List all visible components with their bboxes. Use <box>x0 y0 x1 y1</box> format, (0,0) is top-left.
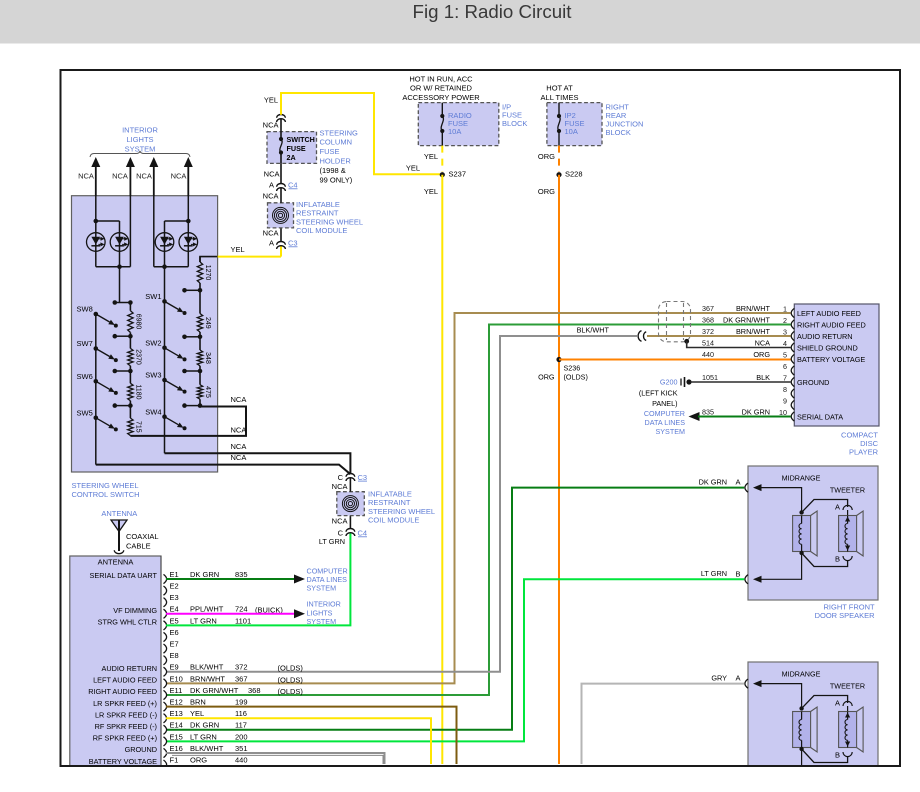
svg-text:COLUMN: COLUMN <box>320 138 353 147</box>
wire lower speaker tweeter top link <box>802 696 848 709</box>
page header bar <box>0 0 920 44</box>
svg-text:LT GRN: LT GRN <box>319 537 345 546</box>
switch SW1 <box>145 292 186 315</box>
svg-text:A: A <box>269 180 274 189</box>
shield twist symbol on 372 wire <box>638 331 641 342</box>
svg-text:NCA: NCA <box>332 517 348 526</box>
svg-text:E2: E2 <box>170 582 179 591</box>
connector arc tweeter B lower speaker <box>835 751 852 760</box>
wire BLK/WHT 351 E16 down <box>166 753 385 764</box>
label 440 ORG pin5 <box>702 350 770 359</box>
wire LED group left bottom rail <box>96 196 131 303</box>
svg-text:10A: 10A <box>448 127 461 136</box>
switch SW2 <box>145 339 186 362</box>
pin chevron B right front door speaker <box>735 570 748 584</box>
fuse IP2 FUSE 10A <box>557 103 561 146</box>
label STEERING WHEEL CONTROL SWITCH <box>72 481 140 499</box>
wire NCA arrow 2 to interior lights <box>126 157 135 196</box>
svg-text:NCA: NCA <box>263 121 279 130</box>
wire lower speaker midrange bottom to pin B <box>753 747 804 779</box>
svg-text:E10: E10 <box>170 674 183 683</box>
svg-text:NCA: NCA <box>263 192 279 201</box>
switch SW7 <box>77 339 118 362</box>
svg-text:YEL: YEL <box>190 709 204 718</box>
svg-text:475: 475 <box>204 386 211 398</box>
svg-text:SW6: SW6 <box>77 372 93 381</box>
svg-text:1101: 1101 <box>235 616 251 625</box>
svg-text:LEFT AUDIO FEED: LEFT AUDIO FEED <box>93 676 157 685</box>
wire BLK/WHT 372 E9 to shield splice <box>166 336 637 672</box>
svg-text:BLK/WHT: BLK/WHT <box>190 744 224 753</box>
wire GRY lower speaker A down <box>582 684 745 764</box>
svg-text:E12: E12 <box>170 698 183 707</box>
svg-text:LT GRN: LT GRN <box>190 616 217 625</box>
right rear junction block box <box>547 103 602 146</box>
svg-text:1180: 1180 <box>134 384 141 399</box>
svg-text:A: A <box>735 673 740 682</box>
svg-text:LEFT AUDIO FEED: LEFT AUDIO FEED <box>797 309 861 318</box>
wire right front door speaker tweeter bottom link <box>802 553 848 567</box>
midrange speaker lower speaker <box>793 712 811 748</box>
svg-text:E5: E5 <box>170 616 179 625</box>
label RIGHT REAR JUNCTION BLOCK <box>606 103 644 137</box>
label RADIO FUSE 10A <box>448 111 472 136</box>
svg-text:LR SPKR FEED (-): LR SPKR FEED (-) <box>95 710 157 719</box>
wire BRN/WHT 367 E10 to CD player pin 1 <box>166 313 791 683</box>
svg-text:LR SPKR FEED (+): LR SPKR FEED (+) <box>93 699 157 708</box>
antenna symbol <box>111 520 127 554</box>
connector arc tweeter B right front door speaker <box>835 555 852 564</box>
wire lower coil module lower lead <box>349 516 351 529</box>
svg-text:C3: C3 <box>288 238 298 247</box>
svg-text:835: 835 <box>702 407 714 416</box>
connector pin id and wire labels <box>170 570 304 765</box>
connector C3 lower <box>338 473 368 482</box>
svg-text:SHIELD GROUND: SHIELD GROUND <box>797 344 858 353</box>
label HOT AT ALL TIMES <box>541 84 579 102</box>
svg-text:FUSE: FUSE <box>287 144 306 153</box>
svg-text:372: 372 <box>235 663 248 672</box>
inflatable restraint steering wheel coil module (lower) <box>337 492 365 516</box>
svg-text:ORG: ORG <box>538 187 555 196</box>
connector top of steering column chain <box>277 115 286 118</box>
svg-text:835: 835 <box>235 570 248 579</box>
svg-text:SWITCH: SWITCH <box>287 135 315 144</box>
wire BRN 199 E12 down <box>166 707 457 764</box>
label LEFT KICK PANEL <box>639 388 678 408</box>
svg-text:SW2: SW2 <box>145 339 161 348</box>
svg-text:249: 249 <box>204 317 211 329</box>
wire switch bus SW5-SW8 <box>95 314 97 465</box>
svg-text:7: 7 <box>783 373 787 382</box>
svg-text:CONTROL SWITCH: CONTROL SWITCH <box>72 490 140 499</box>
switch SW8 <box>77 305 118 328</box>
label IP2 FUSE 10A <box>565 111 585 136</box>
svg-text:E8: E8 <box>170 651 179 660</box>
right front door speaker block <box>748 466 878 600</box>
svg-text:368: 368 <box>702 315 714 324</box>
label I/P FUSE BLOCK <box>502 103 527 128</box>
svg-text:372: 372 <box>702 327 714 336</box>
svg-text:E15: E15 <box>170 732 183 741</box>
wire NCA top connector <box>280 119 282 132</box>
brace over NCA arrows <box>90 151 190 157</box>
label SWITCH FUSE 2A <box>287 135 315 162</box>
svg-text:(OLDS): (OLDS) <box>278 675 304 684</box>
right chain tap stubs <box>182 288 202 408</box>
svg-text:NCA: NCA <box>231 442 247 451</box>
svg-text:NCA: NCA <box>171 172 187 181</box>
wire LED group right top junction <box>165 196 191 267</box>
label 835 DK GRN pin10 <box>702 407 770 416</box>
svg-text:RF SPKR FEED (+): RF SPKR FEED (+) <box>93 734 157 743</box>
svg-text:(OLDS): (OLDS) <box>278 687 304 696</box>
connector C4 upper <box>269 180 298 191</box>
wire NCA 514 shield to CD player pin 4 <box>684 339 790 348</box>
svg-text:GROUND: GROUND <box>797 378 829 387</box>
svg-text:RIGHT AUDIO FEED: RIGHT AUDIO FEED <box>797 321 866 330</box>
svg-text:B: B <box>835 751 840 760</box>
svg-text:351: 351 <box>235 744 248 753</box>
switch SW6 <box>77 372 118 395</box>
wire YEL from chain top to S237 <box>281 93 442 174</box>
svg-text:368: 368 <box>248 686 261 695</box>
svg-text:PPL/WHT: PPL/WHT <box>190 605 224 614</box>
svg-text:STEERING: STEERING <box>320 128 359 137</box>
svg-text:117: 117 <box>235 721 247 730</box>
svg-text:BRN: BRN <box>190 698 206 707</box>
svg-text:367: 367 <box>702 304 714 313</box>
svg-text:ORG: ORG <box>190 756 207 765</box>
wire BRN/WHT 372 shield to CD player pin 3 <box>647 335 791 337</box>
svg-text:BRN/WHT: BRN/WHT <box>736 327 771 336</box>
svg-text:YEL: YEL <box>264 96 278 105</box>
svg-text:10A: 10A <box>565 127 578 136</box>
svg-text:YEL: YEL <box>406 164 420 173</box>
svg-text:BATTERY VOLTAGE: BATTERY VOLTAGE <box>89 757 157 766</box>
svg-text:2370: 2370 <box>134 349 141 365</box>
svg-text:AUDIO RETURN: AUDIO RETURN <box>797 332 853 341</box>
wire LED group left top junction <box>94 196 120 267</box>
resistor 6980 <box>128 311 142 333</box>
svg-text:BLK: BLK <box>756 373 770 382</box>
svg-text:YEL: YEL <box>231 245 245 254</box>
svg-text:DK GRN: DK GRN <box>190 721 219 730</box>
pin chevron A right front door speaker <box>735 477 748 492</box>
svg-text:C4: C4 <box>288 180 298 189</box>
wire ORG fuse to S228 dashed <box>558 146 560 172</box>
resistor 2370 <box>128 348 142 365</box>
svg-text:440: 440 <box>235 756 248 765</box>
svg-text:HOLDER: HOLDER <box>320 157 352 166</box>
svg-text:YEL: YEL <box>424 152 438 161</box>
svg-text:4: 4 <box>783 339 787 348</box>
svg-text:FUSE: FUSE <box>320 147 340 156</box>
svg-text:F1: F1 <box>170 756 179 765</box>
svg-text:E16: E16 <box>170 744 183 753</box>
svg-text:DK GRN: DK GRN <box>742 407 770 416</box>
wire NCA loop from right chain bottom to left chain bottom <box>130 407 246 436</box>
svg-text:NCA: NCA <box>263 229 279 238</box>
svg-text:SW3: SW3 <box>145 371 161 380</box>
svg-text:RF SPKR FEED (-): RF SPKR FEED (-) <box>95 722 157 731</box>
svg-text:440: 440 <box>702 350 714 359</box>
tweeter speaker right front door speaker <box>839 510 864 556</box>
label STEERING COLUMN FUSE HOLDER <box>320 128 359 184</box>
node S236 <box>556 357 580 373</box>
svg-text:B: B <box>835 555 840 564</box>
wire NCA arrow 4 to interior lights <box>184 157 193 196</box>
svg-text:YEL: YEL <box>424 187 438 196</box>
svg-text:99 ONLY): 99 ONLY) <box>320 176 353 185</box>
connector arc tweeter A lower speaker <box>835 699 852 708</box>
svg-text:HOT IN RUN, ACC: HOT IN RUN, ACC <box>409 75 473 84</box>
label inflatable restraint coil module (upper) <box>296 200 363 235</box>
label 367 BRN/WHT pin1 <box>702 304 771 313</box>
svg-text:DK GRN: DK GRN <box>699 477 727 486</box>
svg-text:ACCESSORY POWER: ACCESSORY POWER <box>402 93 480 102</box>
svg-text:9: 9 <box>783 396 787 405</box>
switch SW5 <box>77 409 118 432</box>
svg-text:E9: E9 <box>170 663 179 672</box>
svg-text:INTERIOR: INTERIOR <box>122 126 158 135</box>
svg-text:715: 715 <box>134 421 141 433</box>
svg-text:DK GRN: DK GRN <box>190 570 219 579</box>
svg-text:BATTERY VOLTAGE: BATTERY VOLTAGE <box>797 355 865 364</box>
svg-text:SYSTEM: SYSTEM <box>655 427 685 436</box>
svg-text:TWEETER: TWEETER <box>830 682 865 691</box>
svg-text:STEERING WHEEL: STEERING WHEEL <box>72 481 139 490</box>
wire PPL/WHT 724 E4 to interior lights <box>166 609 305 618</box>
label INTERIOR LIGHTS SYSTEM right <box>307 600 341 626</box>
radio connector block (antenna) <box>70 556 161 766</box>
connector arc tweeter A right front door speaker <box>835 503 852 512</box>
wire lower coil module upper lead <box>349 478 351 492</box>
svg-text:SERIAL DATA UART: SERIAL DATA UART <box>90 571 158 580</box>
connector C3 upper <box>269 238 298 249</box>
svg-text:C3: C3 <box>358 473 368 482</box>
wire NCA arrow 1 to interior lights <box>91 157 100 196</box>
svg-text:367: 367 <box>235 674 248 683</box>
wire ORG S228 down <box>558 175 560 764</box>
LED D1 <box>87 233 106 252</box>
svg-text:DOOR SPEAKER: DOOR SPEAKER <box>815 611 876 620</box>
wire LED group right bottom rail <box>154 196 189 269</box>
svg-text:C: C <box>338 473 344 482</box>
svg-text:S236: S236 <box>564 363 581 372</box>
svg-text:PLAYER: PLAYER <box>849 447 879 456</box>
svg-text:(1998 &: (1998 & <box>320 166 346 175</box>
svg-text:BRN/WHT: BRN/WHT <box>736 304 771 313</box>
wire LT GRN 1101 E5 to C4 lower <box>166 533 350 626</box>
compact disc player pin labels <box>797 309 866 422</box>
label RIGHT FRONT DOOR SPEAKER <box>815 603 876 621</box>
svg-text:Fig 1: Radio Circuit: Fig 1: Radio Circuit <box>413 1 573 22</box>
svg-text:BRN/WHT: BRN/WHT <box>190 674 225 683</box>
wire DK GRN 117 E14 to right front door speaker A <box>166 488 744 730</box>
svg-text:(LEFT KICK: (LEFT KICK <box>639 388 678 397</box>
svg-text:MIDRANGE: MIDRANGE <box>782 670 821 679</box>
svg-text:DATA LINES: DATA LINES <box>645 418 686 427</box>
svg-text:LT GRN: LT GRN <box>701 569 727 578</box>
svg-text:6: 6 <box>783 362 787 371</box>
svg-text:E14: E14 <box>170 721 183 730</box>
compact disc player block <box>794 304 879 426</box>
wire ORG 440 S236 to CD player pin 5 <box>559 359 791 361</box>
svg-text:ALL TIMES: ALL TIMES <box>541 93 579 102</box>
svg-text:SW1: SW1 <box>145 292 161 301</box>
svg-text:E3: E3 <box>170 593 179 602</box>
wire switch bus SW1-SW4 <box>164 267 166 454</box>
svg-text:COAXIAL: COAXIAL <box>126 532 159 541</box>
wire DK GRN/WHT 368 E11 to CD player pin 2 <box>166 325 791 696</box>
wire right front door speaker internal pin A to midrange <box>753 484 804 515</box>
svg-text:COIL MODULE: COIL MODULE <box>296 226 347 235</box>
wire NCA to C4 upper <box>280 188 282 203</box>
svg-text:116: 116 <box>235 709 247 718</box>
wire YEL from switch block <box>200 257 281 262</box>
label INTERIOR LIGHTS SYSTEM <box>122 126 158 154</box>
svg-text:E1: E1 <box>170 570 179 579</box>
svg-text:ANTENNA: ANTENNA <box>98 558 134 567</box>
svg-text:NCA: NCA <box>231 453 247 462</box>
midrange speaker right front door speaker <box>793 516 811 552</box>
fuse RADIO FUSE 10A <box>440 103 444 146</box>
svg-text:HOT AT: HOT AT <box>546 84 573 93</box>
svg-text:199: 199 <box>235 698 248 707</box>
svg-text:BLOCK: BLOCK <box>606 128 631 137</box>
wire right resistor chain <box>199 257 201 407</box>
lower speaker block <box>748 662 878 792</box>
svg-text:DK GRN/WHT: DK GRN/WHT <box>190 686 239 695</box>
svg-text:200: 200 <box>235 732 248 741</box>
label 1051 BLK pin7 <box>702 373 770 382</box>
svg-text:COMPUTER: COMPUTER <box>644 409 685 418</box>
svg-text:MIDRANGE: MIDRANGE <box>782 474 821 483</box>
svg-text:LIGHTS: LIGHTS <box>126 135 153 144</box>
left chain tap stubs <box>113 300 133 408</box>
svg-text:CABLE: CABLE <box>126 542 151 551</box>
svg-text:BLOCK: BLOCK <box>502 119 527 128</box>
svg-text:6980: 6980 <box>134 314 141 330</box>
svg-text:(OLDS): (OLDS) <box>278 664 304 673</box>
label COMPUTER DATA LINES SYSTEM right <box>644 409 685 436</box>
svg-text:STRG WHL CTLR: STRG WHL CTLR <box>98 618 157 627</box>
wire YEL up to connector C3 upper <box>280 246 282 257</box>
svg-text:NCA: NCA <box>136 172 152 181</box>
svg-text:ANTENNA: ANTENNA <box>101 509 137 518</box>
svg-text:NCA: NCA <box>112 172 128 181</box>
label inflatable restraint coil module (lower) <box>368 490 435 525</box>
connector pin chevrons E1-F1 <box>164 574 167 769</box>
wire lower speaker internal pin A to midrange <box>753 680 804 711</box>
connector left side labels <box>88 571 157 766</box>
svg-text:C: C <box>338 529 344 538</box>
svg-text:A: A <box>835 503 840 512</box>
svg-text:S237: S237 <box>449 170 467 179</box>
pin chevron A lower speaker <box>735 673 748 688</box>
wire DK GRN 835 serial data to computer data lines <box>689 412 791 421</box>
svg-text:PANEL): PANEL) <box>652 399 677 408</box>
label 514 NCA pin4 <box>702 338 770 347</box>
svg-text:SYSTEM: SYSTEM <box>307 584 337 593</box>
compact disc player pin numbers <box>779 304 787 417</box>
svg-text:SW4: SW4 <box>145 407 161 416</box>
wire LT GRN 200 E15 to right front door speaker B <box>166 579 744 741</box>
node S228 <box>556 170 582 179</box>
svg-text:A: A <box>735 477 740 486</box>
resistor 1180 <box>128 383 142 400</box>
wire DK GRN 835 E1 to computer data lines <box>166 575 305 584</box>
svg-text:TWEETER: TWEETER <box>830 486 865 495</box>
compact disc player pin chevrons <box>791 308 794 421</box>
svg-text:A: A <box>835 699 840 708</box>
resistor 249 <box>197 314 210 333</box>
wire NCA from SW5-8 bus to C3 <box>96 465 351 475</box>
svg-text:NCA: NCA <box>231 426 247 435</box>
wire BLK 1051 G200 to CD player pin 7 <box>691 381 791 383</box>
LED D3 <box>155 233 174 252</box>
svg-text:ORG: ORG <box>538 152 555 161</box>
resistor 348 <box>197 350 210 366</box>
svg-text:5: 5 <box>783 350 787 359</box>
steering wheel control switch block <box>72 196 218 472</box>
svg-text:S228: S228 <box>565 170 583 179</box>
svg-text:724: 724 <box>235 605 248 614</box>
svg-text:514: 514 <box>702 338 714 347</box>
shield dashed outline around 367/368 <box>659 302 691 342</box>
svg-text:BLK/WHT: BLK/WHT <box>577 326 610 335</box>
node S237 <box>440 170 466 179</box>
pin chevron B lower speaker <box>735 766 748 780</box>
svg-text:SW8: SW8 <box>77 305 93 314</box>
svg-text:ORG: ORG <box>753 350 770 359</box>
svg-text:A: A <box>269 238 274 247</box>
svg-text:B: B <box>735 570 740 579</box>
resistor 475 <box>197 385 210 400</box>
resistor 715 <box>128 418 142 435</box>
wire right front door speaker midrange bottom to pin B <box>753 551 804 583</box>
svg-text:GRY: GRY <box>711 673 727 682</box>
svg-text:1051: 1051 <box>702 373 718 382</box>
wire left resistor chain <box>129 303 131 436</box>
wire NCA to switch fuse holder <box>280 163 282 183</box>
wire NCA coil module lower lead <box>280 228 282 242</box>
svg-text:NCA: NCA <box>231 395 247 404</box>
svg-text:DK GRN/WHT: DK GRN/WHT <box>723 315 771 324</box>
I/P fuse block box <box>418 103 499 146</box>
svg-text:1270: 1270 <box>204 265 211 281</box>
wire YEL S237 down <box>441 175 443 764</box>
svg-text:NCA: NCA <box>332 482 348 491</box>
svg-text:348: 348 <box>204 352 211 364</box>
svg-text:AUDIO RETURN: AUDIO RETURN <box>101 664 157 673</box>
svg-text:E6: E6 <box>170 628 179 637</box>
label COMPUTER DATA LINES SYSTEM left <box>307 566 348 592</box>
resistor 1270 <box>197 262 210 283</box>
label 368 DK GRN/WHT pin2 <box>702 315 771 324</box>
svg-text:2A: 2A <box>287 153 296 162</box>
steering column fuse holder box <box>267 132 317 164</box>
svg-text:NCA: NCA <box>755 338 771 347</box>
svg-text:ORG: ORG <box>538 373 555 382</box>
svg-text:VF DIMMING: VF DIMMING <box>113 606 157 615</box>
svg-text:BLK/WHT: BLK/WHT <box>190 663 224 672</box>
svg-text:GROUND: GROUND <box>125 745 157 754</box>
wire NCA arrow 3 to interior lights <box>149 157 158 196</box>
wire right front door speaker tweeter top link <box>802 500 848 513</box>
svg-text:NCA: NCA <box>264 169 280 178</box>
